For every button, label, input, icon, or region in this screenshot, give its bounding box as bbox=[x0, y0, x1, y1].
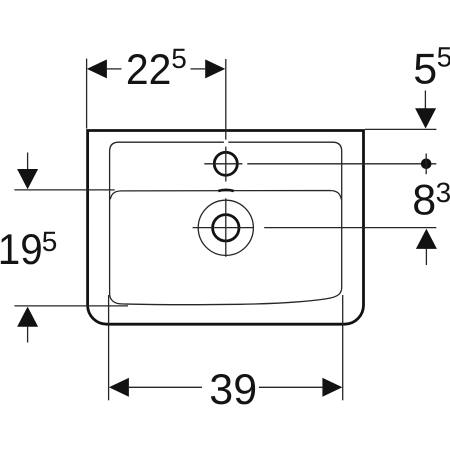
svg-text:22: 22 bbox=[126, 46, 171, 94]
dim 22.5 left arrow bbox=[87, 59, 107, 78]
washbasin outer outline bbox=[88, 131, 364, 325]
dim 19.5 down arrow bbox=[17, 169, 38, 189]
dim 39 dimension line left segment bbox=[129, 386, 202, 388]
svg-text:8: 8 bbox=[412, 177, 436, 225]
dim 5.5 reference line at basin top edge bbox=[365, 128, 436, 130]
dim 19.5 lower reference line bbox=[14, 305, 128, 307]
dim 19.5 upper reference line bbox=[14, 189, 114, 191]
dim 19.5 upper arrow stem bbox=[27, 153, 29, 170]
dim 39 right arrow bbox=[322, 378, 342, 397]
drain centerline vertical bbox=[225, 198, 227, 256]
svg-text:5: 5 bbox=[413, 46, 437, 94]
washbasin inner rim and bowl bbox=[110, 142, 342, 304]
dim 22.5 dimension line right segment bbox=[191, 68, 206, 70]
svg-text:19: 19 bbox=[0, 226, 43, 274]
tap deck contour bbox=[110, 191, 341, 200]
dim 8.3 arrow stem bbox=[425, 249, 427, 266]
svg-text:5: 5 bbox=[437, 42, 450, 73]
svg-text:5: 5 bbox=[42, 226, 58, 257]
dim 22.5 left extension line bbox=[86, 59, 88, 129]
tap hole level dot bbox=[421, 159, 432, 170]
dim 39 left arrow bbox=[109, 378, 129, 397]
dim 5.5 arrow stem bbox=[424, 91, 426, 109]
dim 22.5 right arrow bbox=[205, 59, 225, 78]
dim 39 dimension line right segment bbox=[259, 386, 323, 388]
dim 19.5 up arrow bbox=[17, 307, 38, 327]
svg-text:39: 39 bbox=[209, 366, 257, 414]
tap hole centerline horizontal bbox=[204, 163, 436, 165]
tap hole level dot vertical stub bbox=[425, 154, 427, 175]
dim 39 right extension line bbox=[342, 295, 344, 400]
tap hole / dim 22.5 centerline vertical bbox=[225, 59, 227, 182]
overflow slot bbox=[218, 190, 234, 191]
dim 8.3 up arrow bbox=[416, 229, 437, 249]
rim line gap at centerline bbox=[224, 141, 228, 144]
drain inner circle bbox=[213, 215, 239, 241]
dim 39 left extension line bbox=[108, 295, 110, 400]
drain outer circle bbox=[198, 200, 253, 255]
svg-text:5: 5 bbox=[171, 43, 187, 74]
drain centerline horizontal bbox=[193, 227, 437, 229]
tap hole bbox=[214, 152, 237, 175]
dim 22.5 dimension line left segment bbox=[107, 68, 122, 70]
dim 19.5 lower arrow stem bbox=[27, 327, 29, 343]
svg-text:3: 3 bbox=[436, 177, 450, 208]
dim 5.5 down arrow bbox=[415, 108, 436, 128]
